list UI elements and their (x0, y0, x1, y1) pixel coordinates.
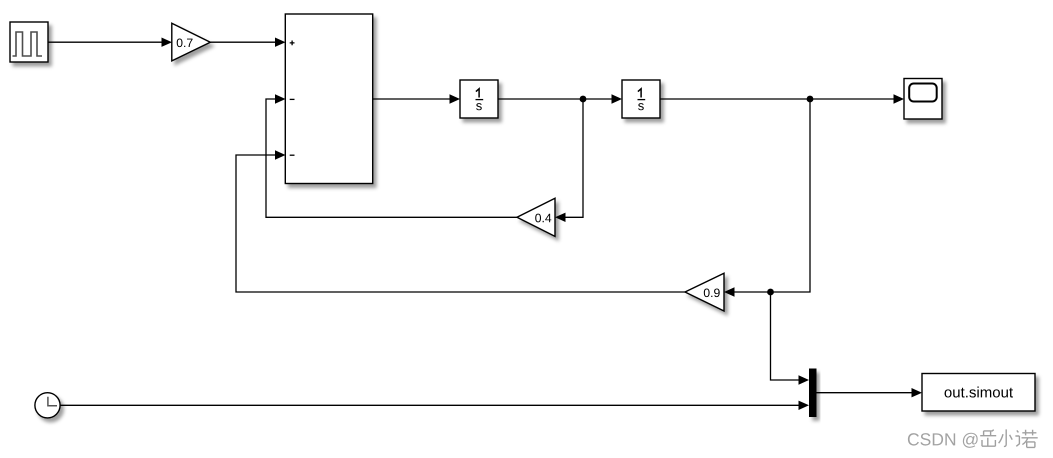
integrator 2 label 1/s (638, 89, 646, 110)
wire: junction down to gain 0.4 input (555, 99, 583, 222)
wire: gain 0.7 to sum + input (210, 38, 286, 47)
integrator block 1 (460, 80, 498, 118)
sum sign + (input 1) (290, 41, 295, 46)
gain G3 label 0.9 (704, 288, 720, 297)
wire: junction down to mux input 1 (771, 292, 810, 385)
wire: gain 0.4 output to sum minus input 2 (266, 94, 517, 217)
pulse generator waveform icon (13, 32, 43, 56)
watermark hanzi yue (980, 430, 996, 447)
watermark hanzi xiao (999, 429, 1013, 446)
wire: pulse generator to gain 0.7 (48, 38, 172, 47)
wire: sum output to integrator 1 (373, 94, 460, 103)
sum sign - (input 3) (290, 154, 295, 156)
scope block (904, 79, 942, 120)
wire: integrator 2 to scope (660, 94, 904, 103)
wire: junction down to gain 0.9 input (724, 99, 810, 297)
integrator 1 label 1/s (476, 89, 484, 110)
pulse generator block (10, 22, 48, 62)
watermark CSDN @ (908, 433, 978, 448)
wire: mux output to out.simout (817, 388, 923, 397)
gain G3 value 0.9 (points left) (685, 273, 724, 311)
integrator block 2 (622, 80, 660, 118)
gain G2 label 0.4 (535, 214, 551, 223)
junction node on gain 0.9 input line (767, 289, 774, 296)
junction node after integrator 2 (807, 96, 814, 103)
gain G1 label 0.7 (177, 38, 193, 47)
clock block (35, 393, 60, 418)
watermark hanzi nuo (1015, 430, 1037, 448)
scope screen icon (909, 84, 937, 102)
wire: gain 0.9 output to sum minus input 3 (236, 150, 685, 292)
out.simout label (945, 387, 1013, 398)
sum sign - (input 2) (290, 98, 295, 100)
sum block (285, 14, 372, 184)
wire: integrator 1 to integrator 2 (498, 94, 622, 103)
out.simout to-workspace block (922, 374, 1035, 412)
clock hands (48, 397, 57, 406)
wire: clock to mux input 2 (60, 401, 809, 410)
mux block (809, 369, 817, 418)
junction node after integrator 1 (580, 96, 587, 103)
gain G1 value 0.7 (172, 23, 211, 61)
gain G2 value 0.4 (points left) (517, 198, 555, 236)
